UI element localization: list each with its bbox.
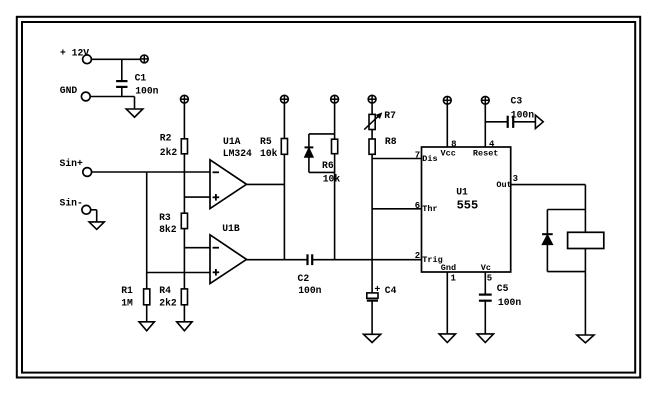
- svg-text:R2: R2: [160, 133, 172, 144]
- svg-text:Vcc: Vcc: [441, 149, 456, 159]
- svg-text:Sin+: Sin+: [60, 158, 83, 169]
- svg-text:C1: C1: [135, 73, 147, 84]
- svg-text:Reset: Reset: [473, 149, 499, 159]
- svg-text:6: 6: [415, 201, 420, 211]
- svg-text:R7: R7: [384, 110, 396, 121]
- svg-text:R5: R5: [260, 136, 272, 147]
- svg-text:R3: R3: [159, 212, 171, 223]
- svg-text:4: 4: [489, 139, 495, 149]
- svg-text:Sin-: Sin-: [60, 197, 83, 208]
- svg-text:C5: C5: [497, 283, 509, 294]
- svg-text:+: +: [374, 285, 380, 296]
- svg-text:R6: R6: [322, 160, 334, 171]
- svg-text:100n: 100n: [298, 285, 321, 296]
- svg-text:U1B: U1B: [222, 223, 240, 234]
- svg-text:GND: GND: [60, 85, 78, 96]
- svg-text:U1: U1: [456, 186, 468, 197]
- svg-text:100n: 100n: [135, 85, 158, 96]
- svg-text:Thr: Thr: [422, 204, 437, 214]
- svg-text:3: 3: [513, 174, 518, 184]
- svg-text:2k2: 2k2: [160, 147, 178, 158]
- svg-text:7: 7: [415, 151, 420, 161]
- svg-text:100n: 100n: [511, 109, 534, 120]
- svg-text:10k: 10k: [260, 148, 278, 159]
- svg-text:Dis: Dis: [422, 154, 437, 164]
- svg-text:1: 1: [451, 274, 457, 284]
- svg-text:LM324: LM324: [223, 148, 252, 159]
- svg-text:R1: R1: [121, 285, 133, 296]
- svg-text:Vc: Vc: [481, 263, 491, 273]
- svg-text:100n: 100n: [498, 297, 521, 308]
- svg-text:R8: R8: [385, 136, 397, 147]
- svg-text:1M: 1M: [121, 297, 133, 308]
- svg-text:+ 12V: + 12V: [60, 47, 89, 58]
- svg-text:555: 555: [457, 199, 479, 213]
- svg-text:10k: 10k: [323, 174, 341, 185]
- svg-text:8: 8: [451, 139, 456, 149]
- svg-text:C3: C3: [511, 96, 523, 107]
- svg-text:2k2: 2k2: [159, 297, 177, 308]
- svg-text:2: 2: [415, 251, 420, 261]
- svg-text:R4: R4: [159, 285, 171, 296]
- svg-text:C4: C4: [385, 285, 397, 296]
- svg-text:Out: Out: [496, 180, 511, 190]
- svg-text:8k2: 8k2: [159, 224, 177, 235]
- svg-text:C2: C2: [298, 273, 310, 284]
- svg-text:Gnd: Gnd: [441, 263, 456, 273]
- svg-text:Trig: Trig: [422, 255, 442, 265]
- svg-text:5: 5: [487, 274, 492, 284]
- svg-text:U1A: U1A: [223, 136, 241, 147]
